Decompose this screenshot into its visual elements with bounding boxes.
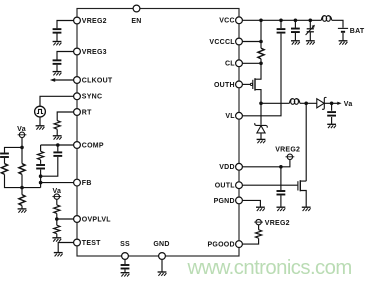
wire VCC to sense resistor [260,20,262,63]
svg-text:PGND: PGND [214,198,235,205]
ground [327,124,336,128]
wire OVPLVL [57,218,74,220]
pin GND [159,253,166,260]
svg-text:BAT: BAT [350,28,365,35]
ground [158,272,167,276]
transistor Q2 [298,180,306,207]
wire TEST [58,243,73,253]
wire PGND [242,200,260,207]
svg-text:GND: GND [153,241,169,248]
svg-text:TEST: TEST [82,240,101,247]
svg-text:VREG2: VREG2 [82,18,107,25]
inductor L2 [289,99,300,105]
svg-text:VCC: VCC [219,18,235,25]
node FB [39,181,43,185]
node VDD [279,165,283,169]
capacitor C6 [121,265,130,269]
terminal VREG2 [254,219,263,224]
wire CL [242,62,261,64]
capacitor C9 trimmer [306,20,315,41]
resistor R2 [38,151,44,160]
inductor L1 [321,16,332,22]
svg-text:VREG3: VREG3 [82,49,107,56]
wire switch node down [260,103,262,139]
node output [330,102,334,106]
svg-text:EN: EN [131,18,141,25]
capacitor C4 [36,165,45,169]
wire PGOOD [242,225,258,244]
capacitor C2 [53,60,62,64]
ground [53,136,62,140]
wire switch line [261,102,317,104]
ground [52,238,61,242]
pin TEST [74,239,81,246]
resistor R9 [256,230,262,239]
svg-text:VCCCL: VCCCL [209,39,235,46]
svg-text:Va: Va [344,101,353,108]
node L2 out [304,102,308,106]
pin SYNC [74,93,81,100]
wire VDD [242,160,290,167]
svg-text:COMP: COMP [82,142,104,149]
node divider-bottom [20,186,24,190]
ground [257,139,266,143]
terminal Va [52,194,61,199]
wire Va to divider node [21,138,23,148]
wire diode to Va [324,102,339,104]
wire OUTH gate [242,83,250,85]
wire COMP network top [41,144,74,146]
resistor R4 [19,164,25,175]
resistor R8 [258,48,264,59]
terminal Va [18,132,27,137]
wire VL to C7 [242,20,281,116]
svg-text:FB: FB [82,180,92,187]
svg-text:VL: VL [225,113,235,120]
svg-text:RT: RT [82,109,92,116]
resistor R6 [54,205,60,214]
svg-text:CL: CL [225,61,235,68]
svg-text:VDD: VDD [219,164,235,171]
node CL [259,62,263,66]
resistor R7 [54,225,60,234]
pin FB [74,179,81,186]
svg-text:www.cntronics.com: www.cntronics.com [187,257,352,279]
ground [18,209,27,213]
svg-text:VREG2: VREG2 [265,220,290,227]
svg-text:OUTH: OUTH [214,82,235,89]
wire GND [161,259,163,272]
resistor R5 [19,195,25,206]
pin RT [74,109,81,116]
ground [291,41,300,45]
ground [54,253,63,257]
ground [53,42,62,46]
capacitor C7 [277,29,286,32]
node OVPLVL [55,217,59,221]
pin VDD [236,163,243,170]
wire SS to C6 [124,259,126,272]
diode D2 [317,97,327,109]
pin VL [236,112,243,119]
pin CL [236,60,243,67]
ground [302,207,311,211]
wire left branch [5,147,23,187]
wire VREG3 to C2 [57,52,74,72]
node VCC-c [294,19,298,23]
wire main divider [21,147,23,209]
pulse generator [35,106,46,117]
capacitor C8 [291,29,300,33]
resistor R3 [1,164,7,175]
wire FB [41,182,74,184]
wire FB to divider [22,187,41,189]
ground [121,273,130,277]
pin VCC [236,17,243,24]
node VCC-d [309,19,313,23]
resistor R1 [54,121,60,130]
node divider-top [20,146,24,150]
wire SYNC to pulse source [40,96,74,126]
node VCCCL [259,40,263,44]
capacitor C1 [53,29,62,33]
ground [53,72,62,76]
capacitor C3 leads [41,145,58,176]
capacitor C11 [277,191,286,195]
ground [306,41,315,45]
pin CLKOUT [74,77,81,84]
svg-text:SYNC: SYNC [82,94,102,101]
svg-text:OUTL: OUTL [215,183,236,190]
diode D1 [255,123,268,133]
capacitor C3 [53,152,62,156]
ground [277,207,286,211]
pin VCCCL [236,38,243,45]
wire RT to R1 [57,112,73,136]
IC U1 box [77,9,239,257]
capacitor C11 leads [280,167,282,207]
pin OUTL [236,182,243,189]
capacitor C10 [327,112,336,116]
pin COMP [74,142,81,149]
ground [339,41,348,45]
svg-text:PGOOD: PGOOD [207,242,234,249]
node VCC-a [259,19,263,23]
pin SS [122,253,129,260]
wire VCCCL [242,41,261,43]
wire node to Q2 drain [305,103,307,181]
node comp-mid [56,143,60,147]
wire VCC rail [242,20,343,27]
svg-text:CLKOUT: CLKOUT [82,77,113,84]
node VCC-b [279,19,283,23]
wire Va to R6 [56,199,58,238]
pin VREG3 [74,48,81,55]
ground [36,126,45,130]
wire CLKOUT arrow [53,79,74,81]
capacitor C5 [0,154,9,158]
node switch [259,102,263,106]
pin OUTH [236,81,243,88]
transistor Q1 [250,63,261,103]
svg-text:OVPLVL: OVPLVL [82,216,111,223]
capacitor C10 leads [331,103,333,124]
pin VREG2 [74,17,81,24]
svg-text:SS: SS [120,241,130,248]
terminal VREG2 [286,154,295,159]
pin OVPLVL [74,216,81,223]
battery BAT [338,28,348,40]
wire VREG2 to C1 [57,21,74,42]
pin EN [133,5,140,12]
wire OUTL gate [242,184,297,186]
ground [256,207,265,211]
node comp-bottom [39,174,43,178]
svg-text:VREG2: VREG2 [275,147,300,154]
capacitor C8 leads [294,20,296,41]
pin PGND [236,197,243,204]
wire C4 down to FB rail [40,170,42,188]
resistor R2 leads [40,145,42,164]
pin PGOOD [236,241,243,248]
